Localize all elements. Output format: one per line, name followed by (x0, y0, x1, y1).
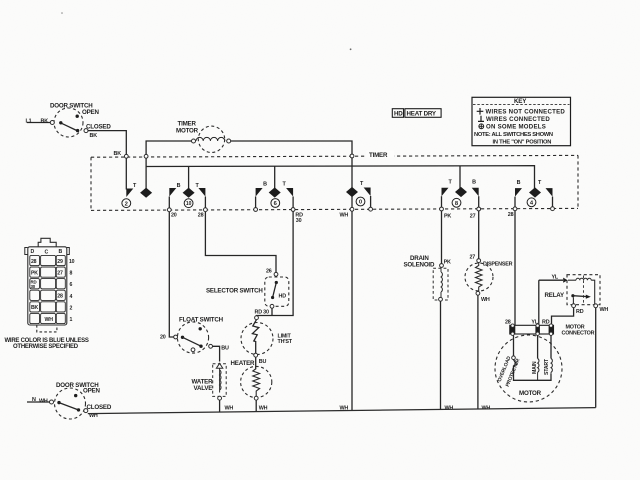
svg-text:B: B (177, 183, 181, 189)
svg-text:START: START (544, 358, 550, 375)
svg-text:27: 27 (470, 254, 476, 260)
svg-text:WH: WH (445, 405, 454, 411)
svg-text:B: B (517, 180, 521, 186)
svg-text:20: 20 (160, 335, 166, 341)
svg-text:N: N (32, 397, 36, 403)
svg-text:28: 28 (57, 294, 63, 300)
svg-text:FLOAT SWITCH: FLOAT SWITCH (179, 316, 224, 323)
svg-text:2: 2 (125, 201, 128, 207)
svg-text:BK: BK (41, 119, 49, 125)
svg-text:28: 28 (31, 259, 37, 265)
svg-text:29: 29 (57, 259, 63, 265)
svg-text:ON SOME MODELS: ON SOME MODELS (486, 124, 546, 131)
svg-text:YL: YL (552, 274, 559, 280)
svg-text:0: 0 (359, 200, 362, 206)
svg-text:RD 30: RD 30 (255, 310, 269, 316)
svg-text:BK: BK (114, 151, 122, 157)
svg-text:28: 28 (505, 320, 511, 326)
svg-text:MOTOR: MOTOR (176, 127, 199, 134)
svg-text:CLOSED: CLOSED (87, 404, 112, 411)
svg-text:30: 30 (31, 284, 36, 289)
svg-text:BK: BK (31, 305, 39, 311)
svg-text:B: B (59, 249, 63, 255)
svg-text:SELECTOR SWITCH: SELECTOR SWITCH (206, 287, 263, 294)
svg-text:HD: HD (394, 111, 403, 118)
svg-text:OPEN: OPEN (83, 388, 100, 395)
svg-text:VALVE: VALVE (194, 385, 213, 392)
svg-text:1: 1 (70, 317, 73, 323)
svg-text:BU: BU (221, 346, 229, 352)
svg-text:TH'ST: TH'ST (278, 339, 293, 345)
svg-text:D: D (31, 249, 35, 255)
svg-text:WH: WH (39, 398, 48, 404)
svg-text:27: 27 (470, 214, 476, 220)
svg-text:8: 8 (70, 271, 73, 277)
svg-text:TIMER: TIMER (369, 152, 388, 159)
svg-text:26: 26 (266, 268, 272, 274)
svg-text:RD: RD (542, 320, 550, 326)
svg-text:HD: HD (279, 294, 287, 300)
svg-text:30: 30 (296, 218, 302, 224)
svg-text:PK: PK (444, 260, 451, 266)
svg-text:2: 2 (70, 305, 73, 311)
svg-text:B: B (263, 182, 267, 188)
svg-text:SOLENOID: SOLENOID (404, 261, 435, 268)
svg-text:OTHERWISE SPECIFIED: OTHERWISE SPECIFIED (13, 344, 79, 350)
svg-text:WIRES CONNECTED: WIRES CONNECTED (486, 116, 550, 123)
svg-text:MAIN: MAIN (532, 361, 538, 374)
svg-text:CONNECTOR: CONNECTOR (562, 331, 595, 337)
svg-text:10: 10 (69, 259, 75, 265)
svg-text:WH: WH (259, 406, 268, 412)
svg-text:MOTOR: MOTOR (519, 390, 542, 397)
svg-text:C: C (45, 249, 49, 255)
svg-text:YL: YL (531, 320, 538, 326)
svg-text:WH: WH (340, 405, 349, 411)
svg-text:OPEN: OPEN (82, 109, 99, 116)
svg-text:28: 28 (198, 213, 204, 219)
svg-text:BU: BU (259, 359, 267, 365)
svg-text:KEY: KEY (514, 98, 527, 105)
svg-text:BK: BK (90, 133, 98, 139)
svg-text:10: 10 (186, 201, 192, 207)
svg-text:CLOSED: CLOSED (86, 124, 111, 131)
svg-text:IN THE "ON" POSITION: IN THE "ON" POSITION (493, 139, 552, 145)
svg-text:WH: WH (340, 213, 349, 219)
svg-text:HEAT DRY: HEAT DRY (407, 111, 437, 118)
svg-text:RELAY: RELAY (545, 292, 565, 299)
svg-text:6: 6 (70, 282, 73, 288)
svg-text:WH: WH (600, 307, 609, 313)
svg-text:28: 28 (508, 212, 514, 218)
svg-text:PK: PK (444, 214, 451, 220)
svg-text:PK: PK (31, 270, 38, 276)
svg-text:20: 20 (171, 213, 177, 219)
svg-text:27: 27 (57, 270, 63, 276)
svg-text:B: B (472, 180, 476, 186)
svg-text:4: 4 (70, 294, 73, 300)
svg-text:WH: WH (225, 406, 234, 412)
svg-text:L1: L1 (26, 119, 32, 125)
svg-text:HEATER: HEATER (231, 360, 256, 367)
svg-text:RD: RD (576, 309, 584, 315)
svg-text:WIRES NOT CONNECTED: WIRES NOT CONNECTED (486, 108, 566, 115)
svg-text:WH: WH (481, 297, 490, 303)
svg-text:NOTE: ALL SWITCHES SHOWN: NOTE: ALL SWITCHES SHOWN (474, 132, 553, 138)
svg-text:WH: WH (45, 317, 54, 323)
